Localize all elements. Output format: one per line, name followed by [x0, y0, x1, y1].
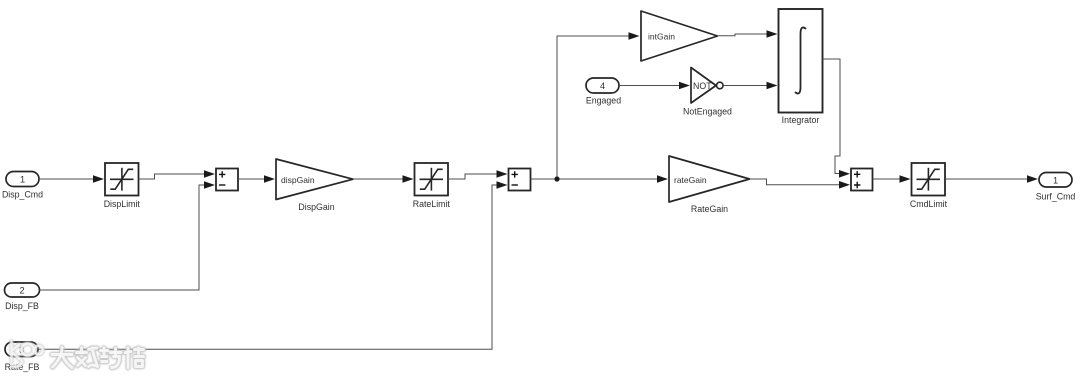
svg-text:2: 2 [19, 286, 24, 296]
svg-text:Surf_Cmd: Surf_Cmd [1036, 191, 1076, 201]
wire DispLimit to sum1 plus [139, 170, 216, 179]
wire Disp_FB to sum1 minus [40, 181, 216, 290]
wire sum2 out with branch to intGain and rateGain [531, 32, 669, 183]
svg-text:CmdLimit: CmdLimit [910, 199, 948, 209]
wire RateGain to sum3 lower plus [750, 179, 850, 189]
svg-text:NOT: NOT [693, 81, 712, 91]
sum block sum3 [851, 169, 873, 191]
integrator block [779, 9, 823, 125]
wire Rate_FB to sum2 minus [38, 181, 508, 349]
wire intGain to Integrator [718, 30, 778, 38]
input port 3 Rate_FB [5, 342, 40, 372]
svg-text:NotEngaged: NotEngaged [683, 107, 732, 117]
svg-text:RateLimit: RateLimit [413, 199, 451, 209]
wire sum1 to DispGain [238, 175, 275, 183]
sum block sum1 [216, 169, 238, 191]
output port 1 Surf_Cmd [1036, 173, 1076, 202]
wire Disp_Cmd to DispLimit [39, 175, 104, 183]
wire NOT to Integrator [723, 82, 777, 90]
wire DispGain to RateLimit [353, 175, 414, 183]
svg-text:Integrator: Integrator [782, 115, 820, 125]
svg-text:RateGain: RateGain [691, 204, 728, 214]
svg-text:Engaged: Engaged [586, 96, 621, 106]
svg-text:Disp_FB: Disp_FB [5, 301, 39, 311]
saturation RateLimit [413, 163, 451, 209]
svg-text:DispLimit: DispLimit [104, 199, 141, 209]
wire Engaged to NOT gate [619, 82, 690, 90]
logic NOT gate NotEngaged [683, 68, 732, 117]
wire RateLimit to sum2 plus [448, 170, 508, 179]
gain DispGain [276, 159, 353, 212]
svg-text:1: 1 [1053, 175, 1058, 185]
input port 1 Disp_Cmd [2, 172, 43, 200]
svg-text:intGain: intGain [648, 31, 675, 41]
gain RateGain [669, 156, 750, 214]
gain intGain [641, 11, 718, 61]
saturation CmdLimit [910, 163, 948, 209]
wire sum3 to CmdLimit [873, 175, 911, 183]
svg-text:rateGain: rateGain [674, 175, 707, 185]
svg-text:Disp_Cmd: Disp_Cmd [2, 190, 43, 200]
svg-text:1: 1 [20, 175, 25, 185]
watermark logo and text [12, 342, 144, 368]
sum block sum2 [509, 169, 531, 191]
saturation DispLimit [104, 163, 141, 209]
input port 4 Engaged [586, 78, 621, 106]
svg-text:DispGain: DispGain [298, 202, 334, 212]
input port 2 Disp_FB [5, 283, 40, 311]
svg-text:4: 4 [600, 81, 605, 91]
wire Integrator to sum3 upper plus [823, 59, 851, 178]
svg-text:dispGain: dispGain [281, 175, 315, 185]
wire CmdLimit to Surf_Cmd [946, 175, 1039, 183]
